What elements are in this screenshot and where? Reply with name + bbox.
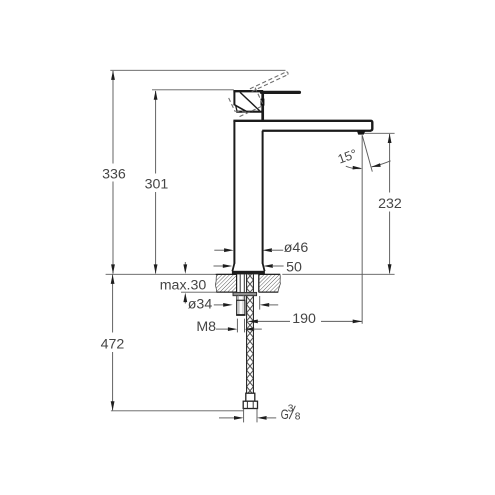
dimension 190: [248, 311, 362, 327]
M8 mounting stud with nut: [236, 296, 245, 315]
svg-text:232: 232: [378, 196, 402, 212]
handle pivot boss: [261, 99, 265, 106]
dimension 50: [214, 259, 302, 275]
extension line hose end: [111, 410, 243, 412]
svg-text:8: 8: [295, 411, 301, 422]
mounting washer under deck: [233, 292, 257, 295]
dimension G3/8: [219, 409, 276, 423]
svg-text:301: 301: [145, 177, 169, 193]
svg-text:472: 472: [101, 336, 125, 352]
dimension M8: [196, 319, 261, 335]
dimension 301: [145, 90, 169, 274]
aerator outlet: [357, 130, 366, 135]
braided flexible hose: [247, 274, 254, 393]
lever handle (solid position): [262, 91, 300, 94]
svg-text:190: 190: [292, 311, 316, 327]
dimension max.30: [160, 262, 207, 304]
svg-text:336: 336: [102, 166, 126, 182]
dimension diameter 34: [188, 296, 278, 313]
angle dimension 15 degrees: [336, 135, 391, 323]
extension line top of lever: [152, 89, 234, 91]
extension line top of raised handle: [110, 69, 285, 71]
extension line spout outlet level: [364, 132, 395, 134]
svg-text:M8: M8: [196, 319, 216, 335]
label G3/8: [281, 404, 301, 423]
handle block (cartridge housing): [233, 90, 263, 120]
extension line deck top right: [282, 273, 394, 275]
dimension 232: [378, 134, 402, 274]
extension line deck bottom left: [181, 291, 216, 293]
faucet shank through deck: [237, 274, 259, 292]
spout: [233, 121, 372, 131]
svg-text:max.30: max.30: [160, 277, 207, 293]
svg-text:50: 50: [286, 259, 302, 275]
countertop deck right hatched section: [259, 274, 281, 292]
extension line deck top left: [106, 273, 216, 275]
lever handle raised position (dashed): [229, 71, 296, 118]
faucet column body: [232, 121, 264, 271]
dimension 472: [101, 274, 125, 410]
svg-text:ø34: ø34: [188, 297, 213, 313]
svg-text:ø46: ø46: [284, 240, 309, 256]
svg-text:3: 3: [288, 404, 294, 415]
G3/8 connection nut: [243, 401, 257, 408]
dimension diameter 46: [214, 240, 308, 256]
base plate: [232, 271, 265, 275]
hose ferrule: [246, 393, 255, 401]
countertop deck left hatched section: [216, 274, 237, 292]
dimension 336: [102, 70, 126, 274]
